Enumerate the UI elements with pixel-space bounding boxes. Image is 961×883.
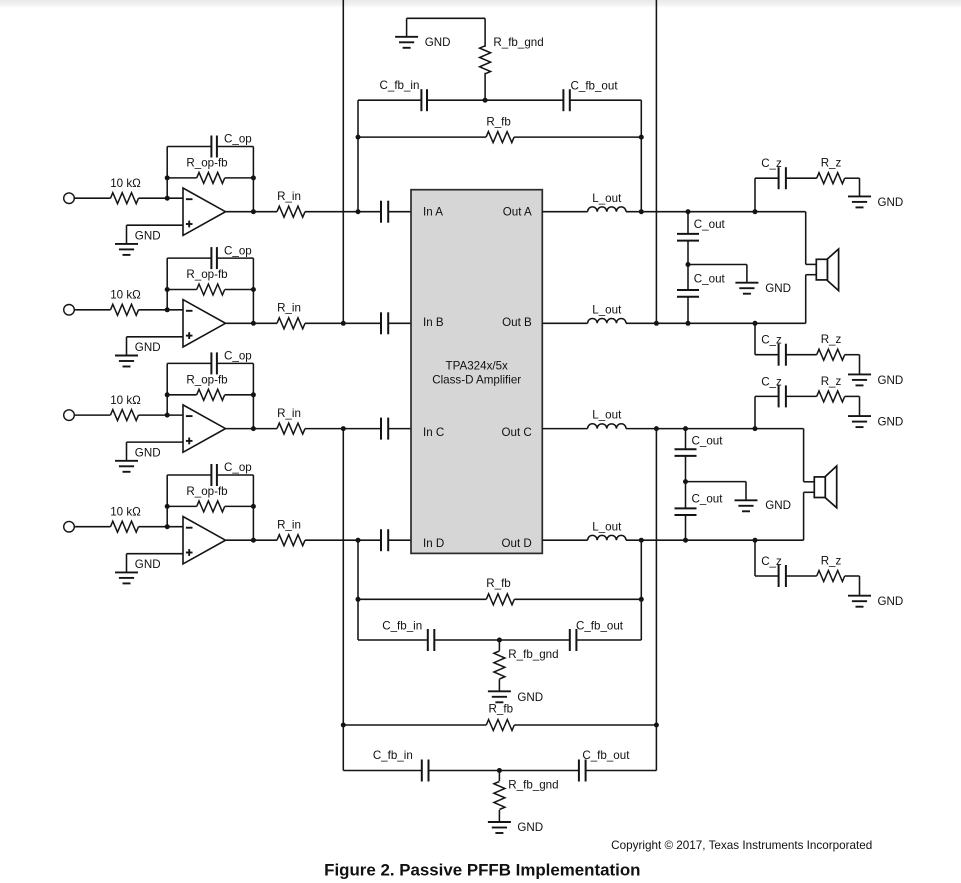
input terminal J_A <box>64 193 75 204</box>
capacitor C_in (ch D) <box>381 529 388 551</box>
wire net Out A bus <box>640 100 642 212</box>
svg-text:GND: GND <box>878 416 904 429</box>
wire <box>166 178 168 198</box>
svg-text:C_fb_in: C_fb_in <box>380 79 420 92</box>
ground (op-amp B) <box>115 337 161 367</box>
wire <box>806 212 817 265</box>
svg-text:L_out: L_out <box>592 409 622 422</box>
ground (snubber A) <box>848 178 903 209</box>
wire <box>226 322 278 324</box>
resistor R_op-fb (ch A) <box>167 157 253 184</box>
node C_out bottom junction B <box>686 321 691 326</box>
wire <box>626 211 806 213</box>
wire <box>687 212 689 233</box>
node feedback left B <box>165 287 170 292</box>
resistor R_z (ch A) <box>786 157 860 184</box>
node C_out top junction A <box>686 209 691 214</box>
wire net Out B bus <box>655 0 657 323</box>
svg-text:GND: GND <box>765 282 791 295</box>
resistor R_fb (net C) <box>343 703 656 731</box>
svg-text:Out C: Out C <box>502 426 532 439</box>
resistor R_z (ch B) <box>786 333 860 360</box>
inductor L_out (ch B) <box>588 303 626 323</box>
wire <box>166 258 168 289</box>
wire <box>74 309 110 311</box>
wire net Out C bus <box>655 429 657 771</box>
wire <box>427 99 563 101</box>
node snubber branch A <box>753 209 758 214</box>
svg-text:Out B: Out B <box>502 316 532 329</box>
capacitor C_z (ch B) <box>755 334 786 366</box>
wire <box>754 396 756 428</box>
capacitor C_in (ch B) <box>381 312 388 334</box>
svg-text:R_fb_gnd: R_fb_gnd <box>508 778 558 791</box>
svg-text:In A: In A <box>423 205 443 218</box>
svg-text:GND: GND <box>425 36 451 49</box>
resistor R_z (ch D) <box>786 554 860 581</box>
node Out C junction <box>654 426 659 431</box>
wire <box>434 639 570 641</box>
resistor R_fb (top) <box>358 116 641 143</box>
svg-text:C_out: C_out <box>692 434 724 447</box>
node In C junction <box>341 426 346 431</box>
node feedback right B <box>251 287 256 292</box>
ground (snubber B) <box>848 355 903 387</box>
svg-text:In B: In B <box>423 316 444 329</box>
resistor R_op-fb (ch D) <box>167 485 253 512</box>
svg-text:Out D: Out D <box>502 537 532 550</box>
capacitor C_fb_in (net C) <box>343 749 428 782</box>
svg-text:C_op: C_op <box>224 244 252 257</box>
wire <box>74 197 110 199</box>
node R_fb left (net C) <box>341 723 346 728</box>
svg-text:R_op-fb: R_op-fb <box>186 268 227 281</box>
wire <box>542 211 587 213</box>
wire <box>542 428 587 430</box>
resistor R_op-fb (ch B) <box>167 268 253 295</box>
wire <box>166 290 168 310</box>
svg-text:R_fb_gnd: R_fb_gnd <box>508 648 558 661</box>
input terminal J_D <box>64 521 75 532</box>
node inverting input C <box>165 413 170 418</box>
wire <box>804 492 815 540</box>
wire <box>305 428 381 430</box>
node C_out top junction C <box>683 426 688 431</box>
svg-text:R_z: R_z <box>821 157 842 170</box>
node snubber branch D <box>753 538 758 543</box>
svg-text:C_out: C_out <box>694 218 726 231</box>
svg-text:R_fb_gnd: R_fb_gnd <box>493 36 543 49</box>
capacitor C_op (ch C) <box>167 350 253 375</box>
node feedback right C <box>251 392 256 397</box>
ground (snubber D) <box>848 576 903 608</box>
svg-text:R_in: R_in <box>277 190 301 203</box>
svg-text:GND: GND <box>135 446 161 459</box>
capacitor C_fb_out (top) <box>563 79 641 111</box>
wire <box>429 770 579 772</box>
op-amp U_B <box>183 300 226 347</box>
svg-text:C_fb_out: C_fb_out <box>576 620 624 633</box>
op-amp U_A <box>183 188 226 235</box>
wire <box>388 322 411 324</box>
svg-text:Figure 2. Passive PFFB Impleme: Figure 2. Passive PFFB Implementation <box>324 860 640 879</box>
resistor 10 k&#937; (ch A) <box>110 177 141 204</box>
svg-text:R_z: R_z <box>821 554 842 567</box>
resistor R_in (ch B) <box>277 302 305 329</box>
wire <box>252 475 254 540</box>
wire <box>139 526 184 528</box>
node R_fb_gnd junction (net D) <box>497 638 502 643</box>
wire net Out D bus <box>640 540 642 640</box>
wire <box>542 539 587 541</box>
svg-text:R_in: R_in <box>277 302 301 315</box>
svg-text:C_z: C_z <box>761 334 782 347</box>
node op-amp output B <box>251 321 256 326</box>
inductor L_out (ch A) <box>588 192 626 212</box>
resistor R_in (ch C) <box>277 407 305 434</box>
wire <box>685 429 687 449</box>
svg-text:10 kΩ: 10 kΩ <box>110 177 141 190</box>
node In B junction <box>341 321 346 326</box>
wire <box>252 363 254 428</box>
wire <box>305 322 381 324</box>
wire net In D bus <box>357 540 359 640</box>
wire <box>626 428 804 430</box>
svg-text:Out A: Out A <box>503 205 532 218</box>
capacitor C_fb_in (top) <box>358 79 427 111</box>
resistor 10 k&#937; (ch B) <box>110 289 141 316</box>
svg-text:C_fb_in: C_fb_in <box>382 620 422 633</box>
capacitor C_op (ch B) <box>167 244 253 269</box>
wire <box>127 224 184 226</box>
ground (op-amp C) <box>115 442 161 472</box>
op-amp U_C <box>183 405 226 452</box>
svg-text:R_op-fb: R_op-fb <box>186 485 227 498</box>
svg-text:R_fb: R_fb <box>486 116 511 129</box>
svg-text:GND: GND <box>135 341 161 354</box>
wire <box>687 241 689 290</box>
capacitor C_out (D) <box>675 492 724 515</box>
wire <box>388 428 411 430</box>
svg-text:C_out: C_out <box>694 273 726 286</box>
node R_fb left (net D) <box>356 597 361 602</box>
wire <box>166 475 168 506</box>
capacitor C_op (ch D) <box>167 461 253 486</box>
svg-text:C_z: C_z <box>761 555 782 568</box>
svg-text:C_op: C_op <box>224 461 252 474</box>
resistor R_fb (net D) <box>358 577 641 605</box>
ground (C_out mid C/D) <box>735 482 791 512</box>
svg-text:GND: GND <box>135 558 161 571</box>
node R_fb right (top) <box>639 135 644 140</box>
wire <box>74 414 110 416</box>
node R_fb right (net C) <box>654 723 659 728</box>
node snubber branch C <box>753 426 758 431</box>
ground (top network) <box>395 18 450 49</box>
node R_fb right (net D) <box>639 597 644 602</box>
svg-text:C_fb_out: C_fb_out <box>571 79 619 92</box>
svg-text:R_fb: R_fb <box>486 577 511 590</box>
wire <box>754 323 756 354</box>
capacitor C_in (ch A) <box>381 201 388 223</box>
capacitor C_out (B) <box>677 273 726 297</box>
node Out A junction <box>639 209 644 214</box>
figure caption <box>324 860 640 879</box>
speaker SPK2 <box>814 466 836 508</box>
svg-text:R_op-fb: R_op-fb <box>186 157 227 170</box>
capacitor C_z (ch D) <box>755 555 786 587</box>
svg-text:C_op: C_op <box>224 133 252 146</box>
input terminal J_B <box>64 305 75 316</box>
wire <box>542 322 587 324</box>
svg-text:C_op: C_op <box>224 350 252 363</box>
capacitor C_fb_in (net D) <box>358 620 434 651</box>
wire <box>74 526 110 528</box>
node op-amp output C <box>251 426 256 431</box>
resistor 10 k&#937; (ch C) <box>110 394 141 421</box>
wire net In A bus <box>357 100 359 212</box>
node feedback right A <box>251 175 256 180</box>
node C_out midpoint A/B <box>686 262 691 267</box>
node feedback left A <box>165 175 170 180</box>
capacitor C_out (A) <box>677 218 726 241</box>
copyright notice <box>611 839 872 852</box>
wire <box>127 441 184 443</box>
svg-text:10 kΩ: 10 kΩ <box>110 289 141 302</box>
svg-text:Class-D Amplifier: Class-D Amplifier <box>432 374 521 387</box>
speaker SPK1 <box>816 249 838 291</box>
node snubber branch B <box>753 321 758 326</box>
node inverting input A <box>165 196 170 201</box>
inductor L_out (ch C) <box>588 409 626 429</box>
wire <box>754 540 756 576</box>
node op-amp output D <box>251 538 256 543</box>
wire <box>226 539 278 541</box>
wire <box>804 429 815 482</box>
node R_fb_gnd top junction <box>483 98 488 103</box>
wire <box>686 481 747 483</box>
wire <box>626 539 804 541</box>
node C_out bottom junction D <box>683 538 688 543</box>
wire <box>688 264 747 266</box>
svg-text:GND: GND <box>878 196 904 209</box>
amplifier IC U1 TPA324x/5x <box>411 190 542 554</box>
wire <box>166 147 168 178</box>
wire <box>407 17 486 19</box>
resistor R_fb_gnd (net D) <box>494 640 559 691</box>
wire <box>166 506 168 526</box>
node Out B junction <box>654 321 659 326</box>
wire net In B bus <box>342 0 344 323</box>
svg-text:GND: GND <box>878 374 904 387</box>
wire <box>226 428 278 430</box>
svg-text:L_out: L_out <box>592 192 622 205</box>
node inverting input B <box>165 307 170 312</box>
resistor R_fb_gnd (net C) <box>494 771 559 823</box>
ground (net D) <box>488 691 543 704</box>
wire <box>139 414 184 416</box>
ground (op-amp A) <box>115 225 161 255</box>
svg-text:Copyright © 2017, Texas Instru: Copyright © 2017, Texas Instruments Inco… <box>611 839 872 852</box>
wire <box>166 395 168 415</box>
capacitor C_fb_out (net C) <box>579 749 657 782</box>
node feedback left C <box>165 392 170 397</box>
resistor R_in (ch D) <box>277 518 305 545</box>
svg-text:C_z: C_z <box>761 157 782 170</box>
svg-text:C_fb_out: C_fb_out <box>582 749 630 762</box>
svg-text:R_z: R_z <box>821 333 842 346</box>
wire <box>139 309 184 311</box>
svg-text:C_z: C_z <box>761 375 782 388</box>
svg-text:10 kΩ: 10 kΩ <box>110 394 141 407</box>
input terminal J_C <box>64 410 75 421</box>
svg-text:GND: GND <box>135 229 161 242</box>
inductor L_out (ch D) <box>588 520 626 540</box>
svg-text:R_fb: R_fb <box>489 703 514 716</box>
svg-text:GND: GND <box>517 821 543 834</box>
wire <box>626 322 806 324</box>
ground (C_out mid A/B) <box>735 265 791 295</box>
ground (net C) <box>488 821 543 834</box>
resistor R_fb_gnd (top) <box>480 18 544 100</box>
wire <box>127 336 184 338</box>
wire <box>252 258 254 323</box>
capacitor C_fb_out (net D) <box>570 620 642 651</box>
wire <box>252 147 254 212</box>
node In A junction <box>356 209 361 214</box>
node feedback left D <box>165 504 170 509</box>
svg-text:GND: GND <box>517 691 543 704</box>
svg-text:In C: In C <box>423 426 444 439</box>
svg-text:R_z: R_z <box>821 375 842 388</box>
ground (snubber C) <box>848 396 903 428</box>
node In D junction <box>356 538 361 543</box>
capacitor C_in (ch C) <box>381 418 388 440</box>
node Out D junction <box>639 538 644 543</box>
resistor R_z (ch C) <box>786 375 860 402</box>
op-amp U_D <box>183 517 226 564</box>
node feedback right D <box>251 504 256 509</box>
svg-text:C_fb_in: C_fb_in <box>373 749 413 762</box>
resistor R_in (ch A) <box>277 190 305 217</box>
wire <box>685 456 687 508</box>
svg-text:L_out: L_out <box>592 303 622 316</box>
svg-text:TPA324x/5x: TPA324x/5x <box>446 360 508 373</box>
wire net In C bus <box>342 429 344 771</box>
wire <box>806 275 817 324</box>
node inverting input D <box>165 524 170 529</box>
capacitor C_z (ch C) <box>755 375 786 407</box>
resistor R_op-fb (ch C) <box>167 373 253 400</box>
node R_fb_gnd junction (net C) <box>497 768 502 773</box>
wire <box>139 197 184 199</box>
svg-text:R_op-fb: R_op-fb <box>186 373 227 386</box>
resistor 10 k&#937; (ch D) <box>110 506 141 533</box>
wire <box>166 363 168 394</box>
svg-text:10 kΩ: 10 kΩ <box>110 506 141 519</box>
svg-text:C_out: C_out <box>692 492 724 505</box>
wire <box>687 297 689 323</box>
wire <box>305 211 381 213</box>
wire <box>685 515 687 540</box>
svg-text:GND: GND <box>878 595 904 608</box>
svg-text:In D: In D <box>423 537 444 550</box>
wire <box>754 178 756 212</box>
svg-text:R_in: R_in <box>277 407 301 420</box>
svg-text:R_in: R_in <box>277 518 301 531</box>
svg-text:L_out: L_out <box>592 520 622 533</box>
capacitor C_out (C) <box>675 434 724 456</box>
wire <box>305 539 381 541</box>
node C_out midpoint C/D <box>683 479 688 484</box>
wire <box>127 553 184 555</box>
ground (op-amp D) <box>115 554 161 584</box>
svg-text:GND: GND <box>765 499 791 512</box>
wire <box>226 211 278 213</box>
capacitor C_op (ch A) <box>167 133 253 158</box>
wire <box>388 539 411 541</box>
capacitor C_z (ch A) <box>755 157 786 189</box>
node R_fb left (top) <box>356 135 361 140</box>
node op-amp output A <box>251 209 256 214</box>
wire <box>388 211 411 213</box>
